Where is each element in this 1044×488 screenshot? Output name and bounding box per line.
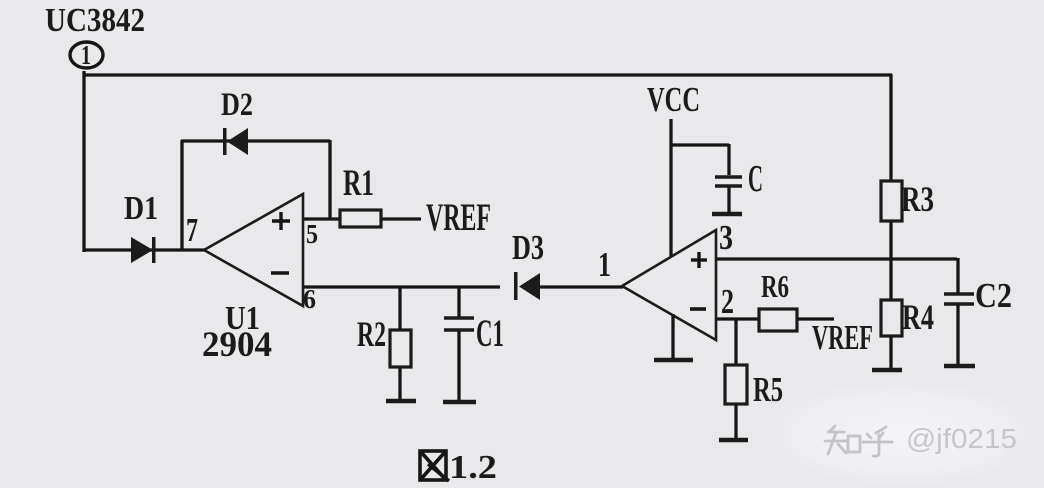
svg-text:VREF: VREF (812, 318, 873, 357)
svg-text:C: C (748, 158, 763, 200)
diode D3 (514, 272, 540, 300)
ground under R2 (386, 399, 416, 404)
wire: R3 to pin3 bus (889, 221, 892, 260)
wire: R5 to ground (734, 403, 737, 438)
wire: C bottom stub to ground (727, 187, 730, 213)
op-amp U1 plus input marker (272, 212, 290, 230)
wire: C2 bottom stub to ground (956, 305, 959, 365)
wire: C top stub (727, 144, 730, 175)
diode D2 (223, 128, 248, 155)
svg-text:R5: R5 (753, 370, 783, 409)
svg-text:D2: D2 (221, 87, 253, 123)
resistor R4 (881, 300, 902, 336)
svg-text:R3: R3 (901, 179, 934, 219)
wire: R4 to ground (889, 336, 892, 369)
svg-text:2904: 2904 (202, 324, 272, 364)
wire: feedback box left vertical (180, 140, 183, 250)
wire: right rail down to R3 (889, 74, 892, 182)
op-amp U1 minus input marker (271, 271, 289, 275)
svg-text:D1: D1 (124, 190, 158, 227)
wire: D3 to op-amp 2 apex (540, 285, 623, 288)
wire: R1 to VREF (381, 217, 421, 220)
svg-text:R6: R6 (761, 268, 789, 304)
ground under C (712, 212, 742, 217)
svg-text:6: 6 (303, 284, 316, 314)
resistor R5 (725, 365, 747, 404)
watermark 知乎 glyphs (825, 426, 892, 456)
op-amp U2 (left-pointing triangle) (622, 230, 716, 340)
wire: VCC drop to op-amp top edge (669, 119, 672, 256)
wire: R2 to ground (398, 366, 401, 400)
wire: D1 to U1 output pin 7 (83, 248, 205, 251)
svg-text:5: 5 (306, 219, 318, 249)
wire: + input to R1 (303, 217, 340, 220)
svg-text:1: 1 (81, 40, 91, 70)
svg-text:VCC: VCC (647, 80, 700, 119)
svg-text:VREF: VREF (426, 196, 491, 239)
ground under C1 (443, 400, 476, 405)
wire: VCC branch to C (670, 143, 729, 146)
wire: - input bus to D3 (303, 285, 500, 288)
wire: R6 to VREF label (797, 317, 834, 320)
ground under R5 (719, 438, 748, 443)
svg-text:R2: R2 (357, 314, 386, 354)
wire: pin3 bus down to R4 (889, 259, 892, 301)
svg-text:1: 1 (598, 245, 611, 284)
capacitor C1 (444, 318, 474, 330)
svg-text:R4: R4 (902, 297, 934, 337)
svg-text:R1: R1 (343, 163, 374, 204)
op-amp U2 minus input marker (690, 307, 706, 311)
wire: C2 top stub (956, 258, 959, 293)
svg-text:2: 2 (721, 282, 734, 321)
capacitor C (715, 177, 742, 186)
wire: pin 2 to R6 (716, 317, 759, 320)
wire: pin 3 bus to C2 (716, 257, 957, 260)
svg-text:D3: D3 (512, 228, 544, 267)
svg-text:@jf0215: @jf0215 (906, 423, 1017, 454)
capacitor C2 (944, 294, 974, 304)
node pin1 circled 1 of UC3842 (70, 42, 103, 68)
resistor R6 (759, 309, 797, 331)
wire: feedback box top horizontal (181, 139, 330, 142)
wire: COMP node vertical from pin1 circle down to D1 (82, 71, 85, 252)
svg-text:C2: C2 (975, 276, 1012, 315)
op-amp U2 plus input marker (691, 252, 707, 268)
ground under C2 (944, 364, 975, 369)
ground under op-amp U2 (654, 358, 693, 363)
diode D1 (131, 237, 156, 263)
resistor R1 (340, 210, 381, 227)
svg-text:7: 7 (186, 212, 198, 249)
wire: R2 drop (398, 287, 401, 331)
op-amp U1 (left-pointing triangle) (204, 194, 303, 306)
wire: feedback box right vertical to + input (328, 140, 331, 219)
resistor R2 (390, 330, 411, 367)
ground under R4 (872, 368, 902, 373)
wire: top long horizontal rail (83, 73, 892, 76)
wire: op-amp 2 bottom edge to ground (671, 314, 674, 359)
svg-text:UC3842: UC3842 (45, 2, 145, 39)
svg-text:C1: C1 (476, 312, 504, 355)
svg-text:1.2: 1.2 (449, 449, 497, 486)
svg-text:3: 3 (719, 218, 733, 257)
caption 图1.2 glyph box (420, 451, 449, 481)
resistor R3 (881, 181, 902, 221)
wire: C1 drop (457, 287, 460, 317)
wire: R5 drop from pin2 wire (734, 319, 737, 366)
wire: C1 to ground (457, 331, 460, 401)
